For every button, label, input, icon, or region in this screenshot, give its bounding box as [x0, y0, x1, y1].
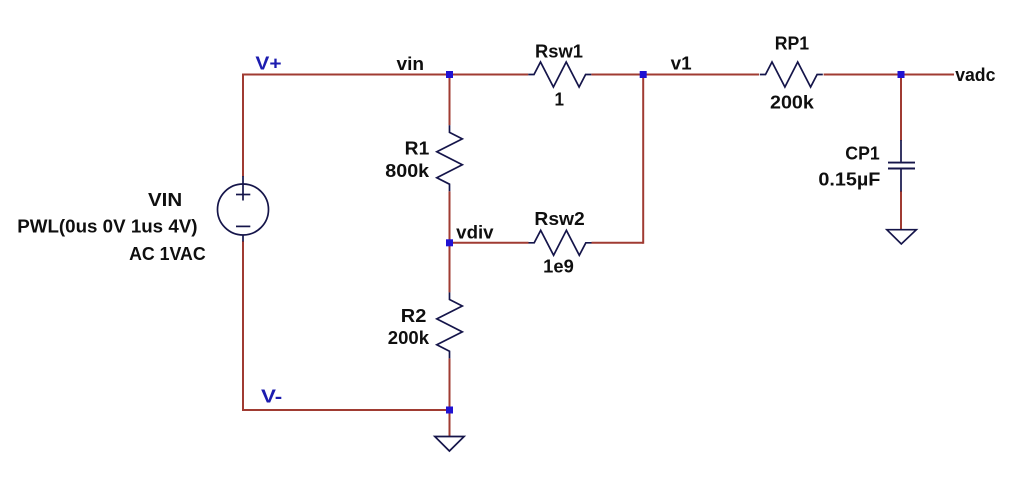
svg-text:200k: 200k: [770, 92, 815, 112]
wire vin node down to R1 top: [449, 75, 451, 126]
capacitor CP1 bottom lead: [900, 169, 902, 191]
svg-text:Rsw1: Rsw1: [535, 42, 583, 62]
node vdiv junction: [446, 239, 453, 246]
wire R1 bottom through vdiv node to R2 top: [449, 191, 451, 292]
svg-text:200k: 200k: [388, 328, 430, 348]
svg-text:R1: R1: [405, 138, 430, 158]
svg-text:1e9: 1e9: [543, 257, 574, 277]
wire CP1 bottom lead to right ground: [900, 191, 902, 230]
svg-text:R2: R2: [401, 306, 427, 326]
wire top from V+ corner to vin node to Rsw1 left lead: [243, 74, 528, 76]
node v1 junction: [640, 71, 647, 78]
resistor R1: [437, 125, 463, 191]
voltage source VIN bottom lead: [242, 235, 244, 242]
wire ground stub below bottom node: [449, 410, 451, 437]
wire left vertical from V+ corner down to VIN source top pin: [242, 74, 244, 177]
capacitor CP1 top lead: [900, 140, 902, 162]
wire bottom horizontal V- to ground node: [243, 409, 450, 411]
node vin junction: [446, 71, 453, 78]
resistor Rsw1: [528, 62, 591, 87]
resistor Rsw2: [529, 230, 592, 255]
wire vertical v1 node down to Rsw2 corner: [642, 75, 644, 244]
wire top between Rsw1 and RP1 through v1 node: [591, 74, 759, 76]
wire top from RP1 to vadc node and label: [824, 74, 954, 76]
wire left vertical from VIN source bottom pin to V- corner: [242, 241, 244, 411]
voltage source VIN circle: [218, 184, 269, 235]
svg-text:1: 1: [555, 90, 565, 110]
node vadc junction: [898, 71, 905, 78]
voltage source VIN minus bar: [236, 225, 250, 227]
svg-text:V+: V+: [255, 54, 281, 74]
ground right: [887, 230, 916, 244]
svg-text:PWL(0us 0V 1us 4V): PWL(0us 0V 1us 4V): [17, 216, 197, 236]
resistor RP1: [760, 62, 823, 87]
ground left: [435, 437, 464, 452]
svg-text:CP1: CP1: [845, 143, 879, 163]
capacitor CP1 top plate: [888, 162, 915, 164]
wire vdiv node to Rsw2 left lead: [450, 242, 529, 244]
svg-text:0.15µF: 0.15µF: [818, 170, 880, 190]
svg-text:Rsw2: Rsw2: [534, 209, 584, 229]
node bottom ground junction: [446, 407, 453, 414]
svg-text:vadc: vadc: [955, 65, 995, 85]
wire R2 bottom to bottom node: [449, 358, 451, 410]
svg-text:v1: v1: [671, 54, 692, 74]
svg-text:vin: vin: [397, 54, 425, 74]
voltage source VIN top lead and plus vertical: [242, 176, 244, 201]
svg-text:AC 1VAC: AC 1VAC: [129, 244, 206, 264]
capacitor CP1 bottom plate: [888, 168, 915, 170]
svg-text:vdiv: vdiv: [456, 222, 493, 242]
svg-text:RP1: RP1: [775, 33, 809, 53]
svg-text:V-: V-: [261, 387, 282, 407]
wire vadc node down to CP1 top lead: [900, 75, 902, 141]
svg-text:VIN: VIN: [148, 190, 182, 210]
svg-text:800k: 800k: [385, 161, 430, 181]
resistor R2: [437, 292, 463, 358]
voltage source VIN plus horizontal: [236, 194, 250, 196]
wire Rsw2 right lead to corner below v1: [592, 242, 644, 244]
